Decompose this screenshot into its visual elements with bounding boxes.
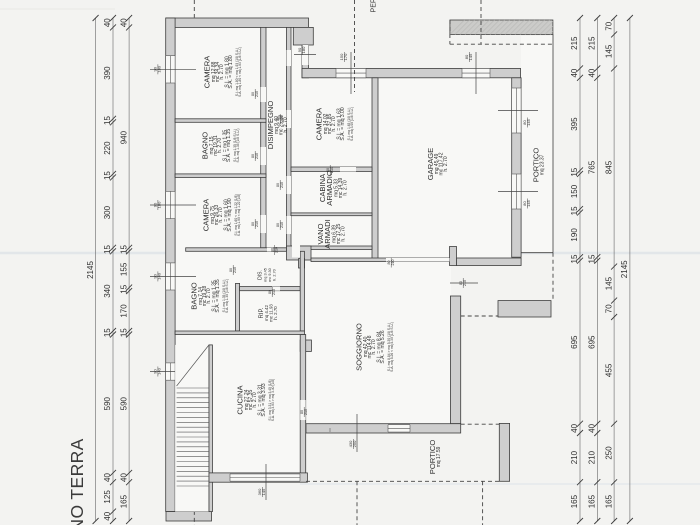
- svg-text:mq 3.45: mq 3.45: [264, 268, 268, 282]
- svg-text:210: 210: [304, 409, 308, 415]
- svg-text:h. 2.70: h. 2.70: [283, 117, 289, 133]
- svg-text:PIANO TERRA: PIANO TERRA: [67, 438, 87, 525]
- svg-text:140: 140: [157, 367, 162, 374]
- svg-text:2145: 2145: [86, 261, 95, 279]
- svg-text:40: 40: [103, 18, 112, 27]
- svg-text:h. 2.70: h. 2.70: [342, 180, 348, 196]
- svg-text:155: 155: [119, 262, 128, 276]
- svg-text:210: 210: [280, 222, 284, 228]
- svg-text:DIS.: DIS.: [258, 270, 264, 280]
- svg-text:mq 23.37: mq 23.37: [540, 154, 546, 175]
- svg-text:145: 145: [526, 118, 531, 125]
- svg-text:695: 695: [570, 335, 579, 349]
- svg-text:220: 220: [103, 141, 112, 155]
- svg-text:250: 250: [604, 446, 613, 460]
- svg-text:165: 165: [588, 494, 597, 508]
- svg-text:210: 210: [255, 153, 259, 159]
- svg-text:695: 695: [588, 335, 597, 349]
- svg-text:mq 17.59: mq 17.59: [436, 446, 442, 467]
- svg-text:15: 15: [103, 328, 112, 337]
- svg-text:40: 40: [570, 68, 579, 77]
- svg-text:S.A. = mq 1.35: S.A. = mq 1.35: [226, 129, 232, 162]
- svg-text:125: 125: [103, 490, 112, 504]
- svg-text:40: 40: [103, 473, 112, 482]
- svg-text:210: 210: [255, 91, 259, 97]
- svg-text:S.A. mq 1.80 < mq 1.93 (1/8 S.: S.A. mq 1.80 < mq 1.93 (1/8 S.U.): [238, 47, 242, 97]
- svg-text:210: 210: [570, 450, 579, 464]
- svg-text:15: 15: [119, 284, 128, 293]
- svg-text:S.A. = mq 1.90: S.A. = mq 1.90: [227, 198, 233, 231]
- svg-text:h. 2.70: h. 2.70: [273, 306, 278, 320]
- svg-text:765: 765: [588, 160, 597, 174]
- svg-text:S.A. mq 5.26 < mq 5.30 (1/8 S.: S.A. mq 5.26 < mq 5.30 (1/8 S.U.): [390, 322, 394, 372]
- svg-text:40: 40: [119, 473, 128, 482]
- svg-text:390: 390: [103, 66, 112, 80]
- svg-text:70: 70: [604, 304, 613, 313]
- svg-text:340: 340: [103, 284, 112, 298]
- svg-text:590: 590: [103, 396, 112, 410]
- svg-text:2145: 2145: [620, 260, 629, 278]
- svg-text:40: 40: [119, 18, 128, 27]
- svg-text:165: 165: [119, 494, 128, 508]
- svg-text:15: 15: [119, 245, 128, 254]
- svg-text:210: 210: [272, 289, 276, 295]
- svg-text:145: 145: [526, 199, 531, 206]
- svg-text:15: 15: [570, 167, 579, 176]
- svg-text:140: 140: [157, 272, 162, 279]
- svg-text:S.A. mq 3.00 (1/8 S.U.): S.A. mq 3.00 (1/8 S.U.): [350, 107, 354, 141]
- svg-text:210: 210: [233, 267, 237, 273]
- svg-text:S.A. mq 3.93 > mq 3.40 (1/8): S.A. mq 3.93 > mq 3.40 (1/8): [271, 379, 275, 421]
- svg-text:300: 300: [103, 205, 112, 219]
- svg-text:70: 70: [604, 21, 613, 30]
- svg-text:215: 215: [588, 36, 597, 50]
- svg-text:mc 9.30: mc 9.30: [268, 268, 272, 282]
- svg-text:S.A. = mq 1.80: S.A. = mq 1.80: [228, 55, 234, 88]
- svg-text:S.A. = mq 3.93: S.A. = mq 3.93: [261, 383, 267, 416]
- svg-text:180: 180: [157, 65, 162, 72]
- svg-text:590: 590: [119, 396, 128, 410]
- svg-text:215: 215: [570, 36, 579, 50]
- svg-text:170: 170: [343, 53, 348, 60]
- svg-text:S.A. mq 1.35 (1/8 S.U.): S.A. mq 1.35 (1/8 S.U.): [225, 279, 229, 313]
- svg-text:165: 165: [570, 494, 579, 508]
- svg-text:15: 15: [119, 328, 128, 337]
- svg-text:40: 40: [103, 511, 112, 520]
- svg-text:210: 210: [588, 450, 597, 464]
- svg-text:145: 145: [468, 53, 473, 60]
- svg-text:190: 190: [570, 228, 579, 242]
- svg-text:395: 395: [570, 117, 579, 131]
- svg-text:210: 210: [280, 182, 284, 188]
- svg-text:15: 15: [103, 245, 112, 254]
- svg-text:145: 145: [604, 44, 613, 58]
- svg-text:S.A. = mq 3.00: S.A. = mq 3.00: [340, 107, 346, 140]
- svg-text:145: 145: [261, 488, 266, 495]
- svg-text:165: 165: [604, 494, 613, 508]
- svg-text:40: 40: [570, 423, 579, 432]
- svg-text:15: 15: [588, 254, 597, 263]
- svg-text:40: 40: [588, 68, 597, 77]
- svg-text:15: 15: [103, 116, 112, 125]
- svg-text:180: 180: [301, 46, 306, 53]
- svg-text:250: 250: [352, 440, 357, 447]
- svg-text:15: 15: [103, 171, 112, 180]
- svg-text:210: 210: [255, 221, 259, 227]
- svg-text:210: 210: [391, 260, 395, 266]
- svg-text:S.A. = mq 1.35: S.A. = mq 1.35: [215, 279, 221, 312]
- svg-text:PERGOLATO: PERGOLATO: [371, 0, 378, 12]
- svg-text:845: 845: [604, 160, 613, 174]
- svg-text:15: 15: [570, 206, 579, 215]
- svg-text:940: 940: [119, 130, 128, 144]
- svg-text:S.A. mq 1.35 (1/8 S.U.): S.A. mq 1.35 (1/8 S.U.): [236, 128, 240, 162]
- svg-text:h. 2.70: h. 2.70: [443, 156, 449, 172]
- svg-text:210: 210: [275, 247, 279, 253]
- svg-text:h. 2.70: h. 2.70: [340, 226, 346, 242]
- svg-text:h. 2.70: h. 2.70: [273, 269, 277, 281]
- svg-text:145: 145: [604, 276, 613, 290]
- svg-text:40: 40: [588, 423, 597, 432]
- svg-text:15: 15: [570, 254, 579, 263]
- svg-text:S.A. mq 1.90 < mq 1.22 (1/8): S.A. mq 1.90 < mq 1.22 (1/8): [237, 194, 241, 236]
- svg-text:150: 150: [570, 184, 579, 198]
- svg-text:180: 180: [157, 201, 162, 208]
- svg-text:455: 455: [604, 363, 613, 377]
- svg-text:S.A. = mq 5.26: S.A. = mq 5.26: [380, 330, 386, 363]
- svg-text:170: 170: [119, 304, 128, 318]
